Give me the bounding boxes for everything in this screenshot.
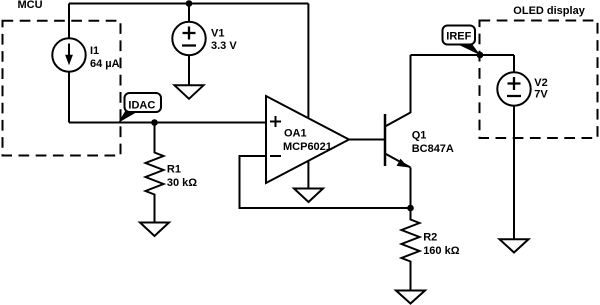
wire V1 top lead <box>188 4 190 23</box>
voltage source V2 <box>497 72 530 105</box>
wire Q1 emitter down <box>410 168 412 209</box>
svg-text:BC847A: BC847A <box>412 143 454 155</box>
wire collector to V2 (IREF net) <box>411 54 515 56</box>
MCU enclosure box <box>3 21 121 156</box>
svg-text:160 kΩ: 160 kΩ <box>423 245 460 257</box>
svg-text:3.3 V: 3.3 V <box>211 40 237 52</box>
current source I1 <box>52 38 85 71</box>
resistor R1 <box>146 123 164 223</box>
op-amp OA1 <box>266 96 349 183</box>
ground V1 <box>175 85 204 99</box>
svg-text:I1: I1 <box>90 45 99 57</box>
svg-text:MCU: MCU <box>18 0 43 11</box>
svg-text:OLED display: OLED display <box>513 5 585 17</box>
ground OA1 <box>294 189 323 203</box>
ground R1 <box>140 223 169 237</box>
svg-text:MCP6021: MCP6021 <box>283 141 332 153</box>
OLED display enclosure box <box>480 21 598 139</box>
resistor R2 <box>402 208 420 291</box>
svg-text:IDAC: IDAC <box>128 100 155 112</box>
junction R2 top <box>407 205 414 212</box>
voltage source V1 <box>172 22 205 55</box>
wire I1 top lead <box>68 4 70 39</box>
svg-text:R1: R1 <box>167 163 181 175</box>
wire Q1 collector up <box>410 55 412 113</box>
node IREF flag <box>443 26 481 56</box>
svg-text:V1: V1 <box>211 28 224 40</box>
junction at R1 top <box>151 119 158 126</box>
wire V2 bottom lead <box>513 106 515 240</box>
svg-text:V2: V2 <box>534 77 547 89</box>
svg-text:OA1: OA1 <box>284 128 307 140</box>
svg-text:7V: 7V <box>534 89 548 101</box>
svg-text:Q1: Q1 <box>412 130 427 142</box>
wire op-amp ground stem <box>307 161 309 189</box>
wire feedback from - input <box>240 156 411 208</box>
ground R2 <box>396 291 425 304</box>
svg-text:R2: R2 <box>423 232 437 244</box>
wire top rail <box>69 3 308 5</box>
wire V1 bottom lead <box>188 55 190 85</box>
junction IREF node <box>477 52 484 59</box>
wire op-amp power pin <box>307 4 309 118</box>
node IDAC flag <box>118 93 161 123</box>
svg-text:30 kΩ: 30 kΩ <box>167 177 197 189</box>
junction V1 top <box>186 0 193 7</box>
wire op-amp output to Q1 base <box>349 139 384 141</box>
wire IDAC node to op-amp + input <box>69 122 266 124</box>
ground V2 <box>500 239 529 252</box>
wire IREF to V2 top <box>513 55 515 72</box>
svg-text:IREF: IREF <box>446 31 471 43</box>
wire I1 bottom lead <box>68 72 70 123</box>
transistor Q1 <box>385 113 411 168</box>
svg-text:64 µA: 64 µA <box>90 58 120 70</box>
